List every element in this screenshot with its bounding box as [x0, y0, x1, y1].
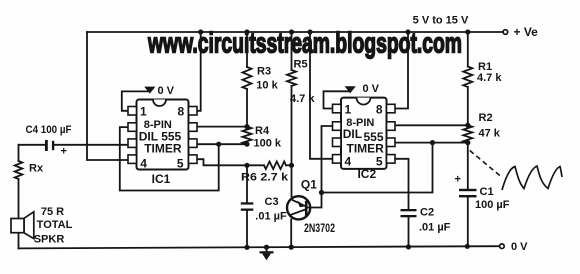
svg-text:TIMER: TIMER: [347, 142, 385, 156]
svg-text:DIL: DIL: [343, 127, 362, 141]
svg-text:R3: R3: [257, 66, 271, 78]
svg-text:1: 1: [345, 102, 352, 116]
svg-text:0 V: 0 V: [158, 85, 175, 97]
svg-text:+: +: [61, 146, 67, 158]
svg-text:SPKR: SPKR: [34, 234, 65, 246]
svg-text:.01 µF: .01 µF: [419, 221, 451, 233]
svg-text:R6 2.7 k: R6 2.7 k: [241, 172, 289, 184]
svg-text:+: +: [455, 173, 461, 185]
svg-text:5: 5: [177, 156, 184, 170]
svg-text:C2: C2: [420, 207, 434, 219]
svg-text:C4 100 µF: C4 100 µF: [26, 124, 72, 136]
svg-text:5: 5: [376, 154, 383, 168]
svg-text:.01 µF: .01 µF: [255, 210, 287, 222]
svg-text:1: 1: [140, 105, 147, 119]
svg-text:Rx: Rx: [29, 163, 44, 175]
svg-text:www.circuitsstream.blogspot.co: www.circuitsstream.blogspot.com: [147, 28, 462, 60]
svg-text:47 k: 47 k: [479, 128, 501, 140]
svg-text:4.7 k: 4.7 k: [477, 72, 502, 84]
svg-text:4: 4: [345, 154, 352, 168]
svg-text:C3: C3: [265, 196, 279, 208]
svg-text:4: 4: [140, 156, 147, 170]
svg-text:100 k: 100 k: [254, 138, 282, 150]
svg-text:2N3702: 2N3702: [304, 221, 335, 235]
svg-text:0 V: 0 V: [363, 83, 380, 95]
svg-text:R2: R2: [479, 112, 493, 124]
svg-text:+ Ve: + Ve: [514, 25, 539, 39]
svg-text:75 R: 75 R: [41, 206, 64, 218]
svg-text:10 k: 10 k: [256, 80, 278, 92]
svg-text:0 V: 0 V: [511, 241, 528, 253]
svg-text:TOTAL: TOTAL: [37, 219, 73, 231]
svg-text:IC1: IC1: [152, 172, 171, 186]
svg-text:5 V to 15 V: 5 V to 15 V: [413, 15, 469, 27]
svg-text:TIMER: TIMER: [144, 142, 182, 156]
svg-text:R5: R5: [294, 59, 308, 71]
svg-text:Q1: Q1: [301, 177, 317, 191]
svg-text:C1: C1: [480, 186, 494, 198]
svg-text:100 µF: 100 µF: [475, 199, 510, 211]
svg-text:IC2: IC2: [357, 167, 376, 181]
svg-text:4.7 k: 4.7 k: [290, 93, 315, 105]
svg-text:8: 8: [376, 102, 383, 116]
svg-text:R4: R4: [255, 125, 270, 137]
svg-text:8: 8: [178, 105, 185, 119]
